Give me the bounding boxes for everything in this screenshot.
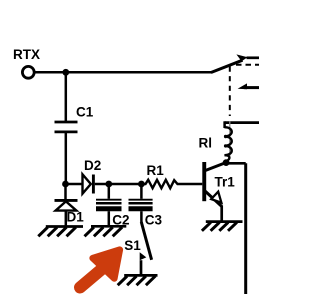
svg-text:C3: C3 [145, 212, 163, 227]
svg-text:Rl: Rl [199, 136, 213, 151]
svg-text:R1: R1 [147, 163, 165, 178]
svg-text:D2: D2 [84, 158, 101, 173]
svg-text:Tr1: Tr1 [215, 175, 236, 190]
svg-text:RTX: RTX [13, 47, 40, 62]
svg-text:D1: D1 [67, 210, 85, 225]
svg-text:C1: C1 [76, 105, 94, 120]
svg-text:S1: S1 [124, 238, 141, 253]
